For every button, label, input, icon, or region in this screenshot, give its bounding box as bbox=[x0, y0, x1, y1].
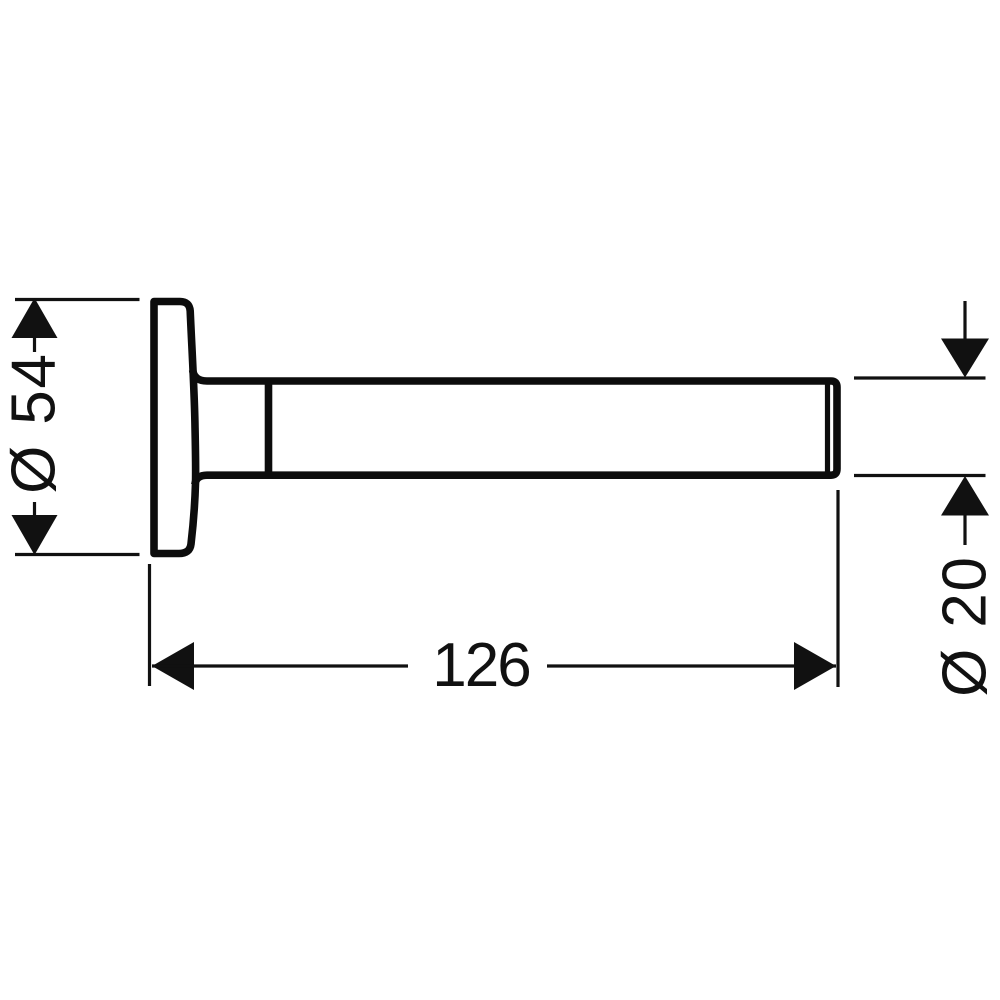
dimension Ø20: upper arrowhead pointing down bbox=[941, 339, 989, 378]
svg-text:Ø 54: Ø 54 bbox=[0, 352, 69, 494]
wall plate (escutcheon) outline bbox=[154, 302, 196, 554]
dimension Ø54: lower dimension line stub bbox=[33, 502, 36, 517]
dimension Ø20: upper dimension line bbox=[963, 301, 966, 340]
stem cone and arm outline bbox=[193, 370, 837, 485]
arm end inner edge line bbox=[825, 380, 830, 476]
dimension 126: right dimension line bbox=[547, 664, 836, 667]
svg-text:Ø 20: Ø 20 bbox=[931, 555, 1000, 697]
dimension Ø54: upper arrowhead bbox=[12, 298, 58, 338]
dimension 126: left arrowhead bbox=[152, 642, 194, 690]
dimension Ø20: top extension line bbox=[854, 376, 986, 379]
dimension 126: left dimension line bbox=[152, 664, 408, 667]
joint line between cone and arm bbox=[265, 378, 273, 480]
dimension 126: left extension line bbox=[148, 564, 151, 686]
svg-text:126: 126 bbox=[432, 631, 529, 700]
dimension Ø20: bottom extension line bbox=[854, 474, 986, 477]
dimension 126: right arrowhead bbox=[794, 642, 836, 690]
dimension Ø20: lower dimension line bbox=[963, 514, 966, 545]
dimension Ø54: upper dimension line stub bbox=[33, 336, 36, 352]
dimension Ø20: lower arrowhead pointing up bbox=[941, 476, 989, 516]
dimension 126: right extension line bbox=[836, 490, 839, 687]
dimension Ø54: lower arrowhead bbox=[12, 515, 58, 555]
dimension Ø54: bottom extension line bbox=[15, 553, 140, 556]
dimension Ø54: top extension line bbox=[15, 298, 140, 301]
